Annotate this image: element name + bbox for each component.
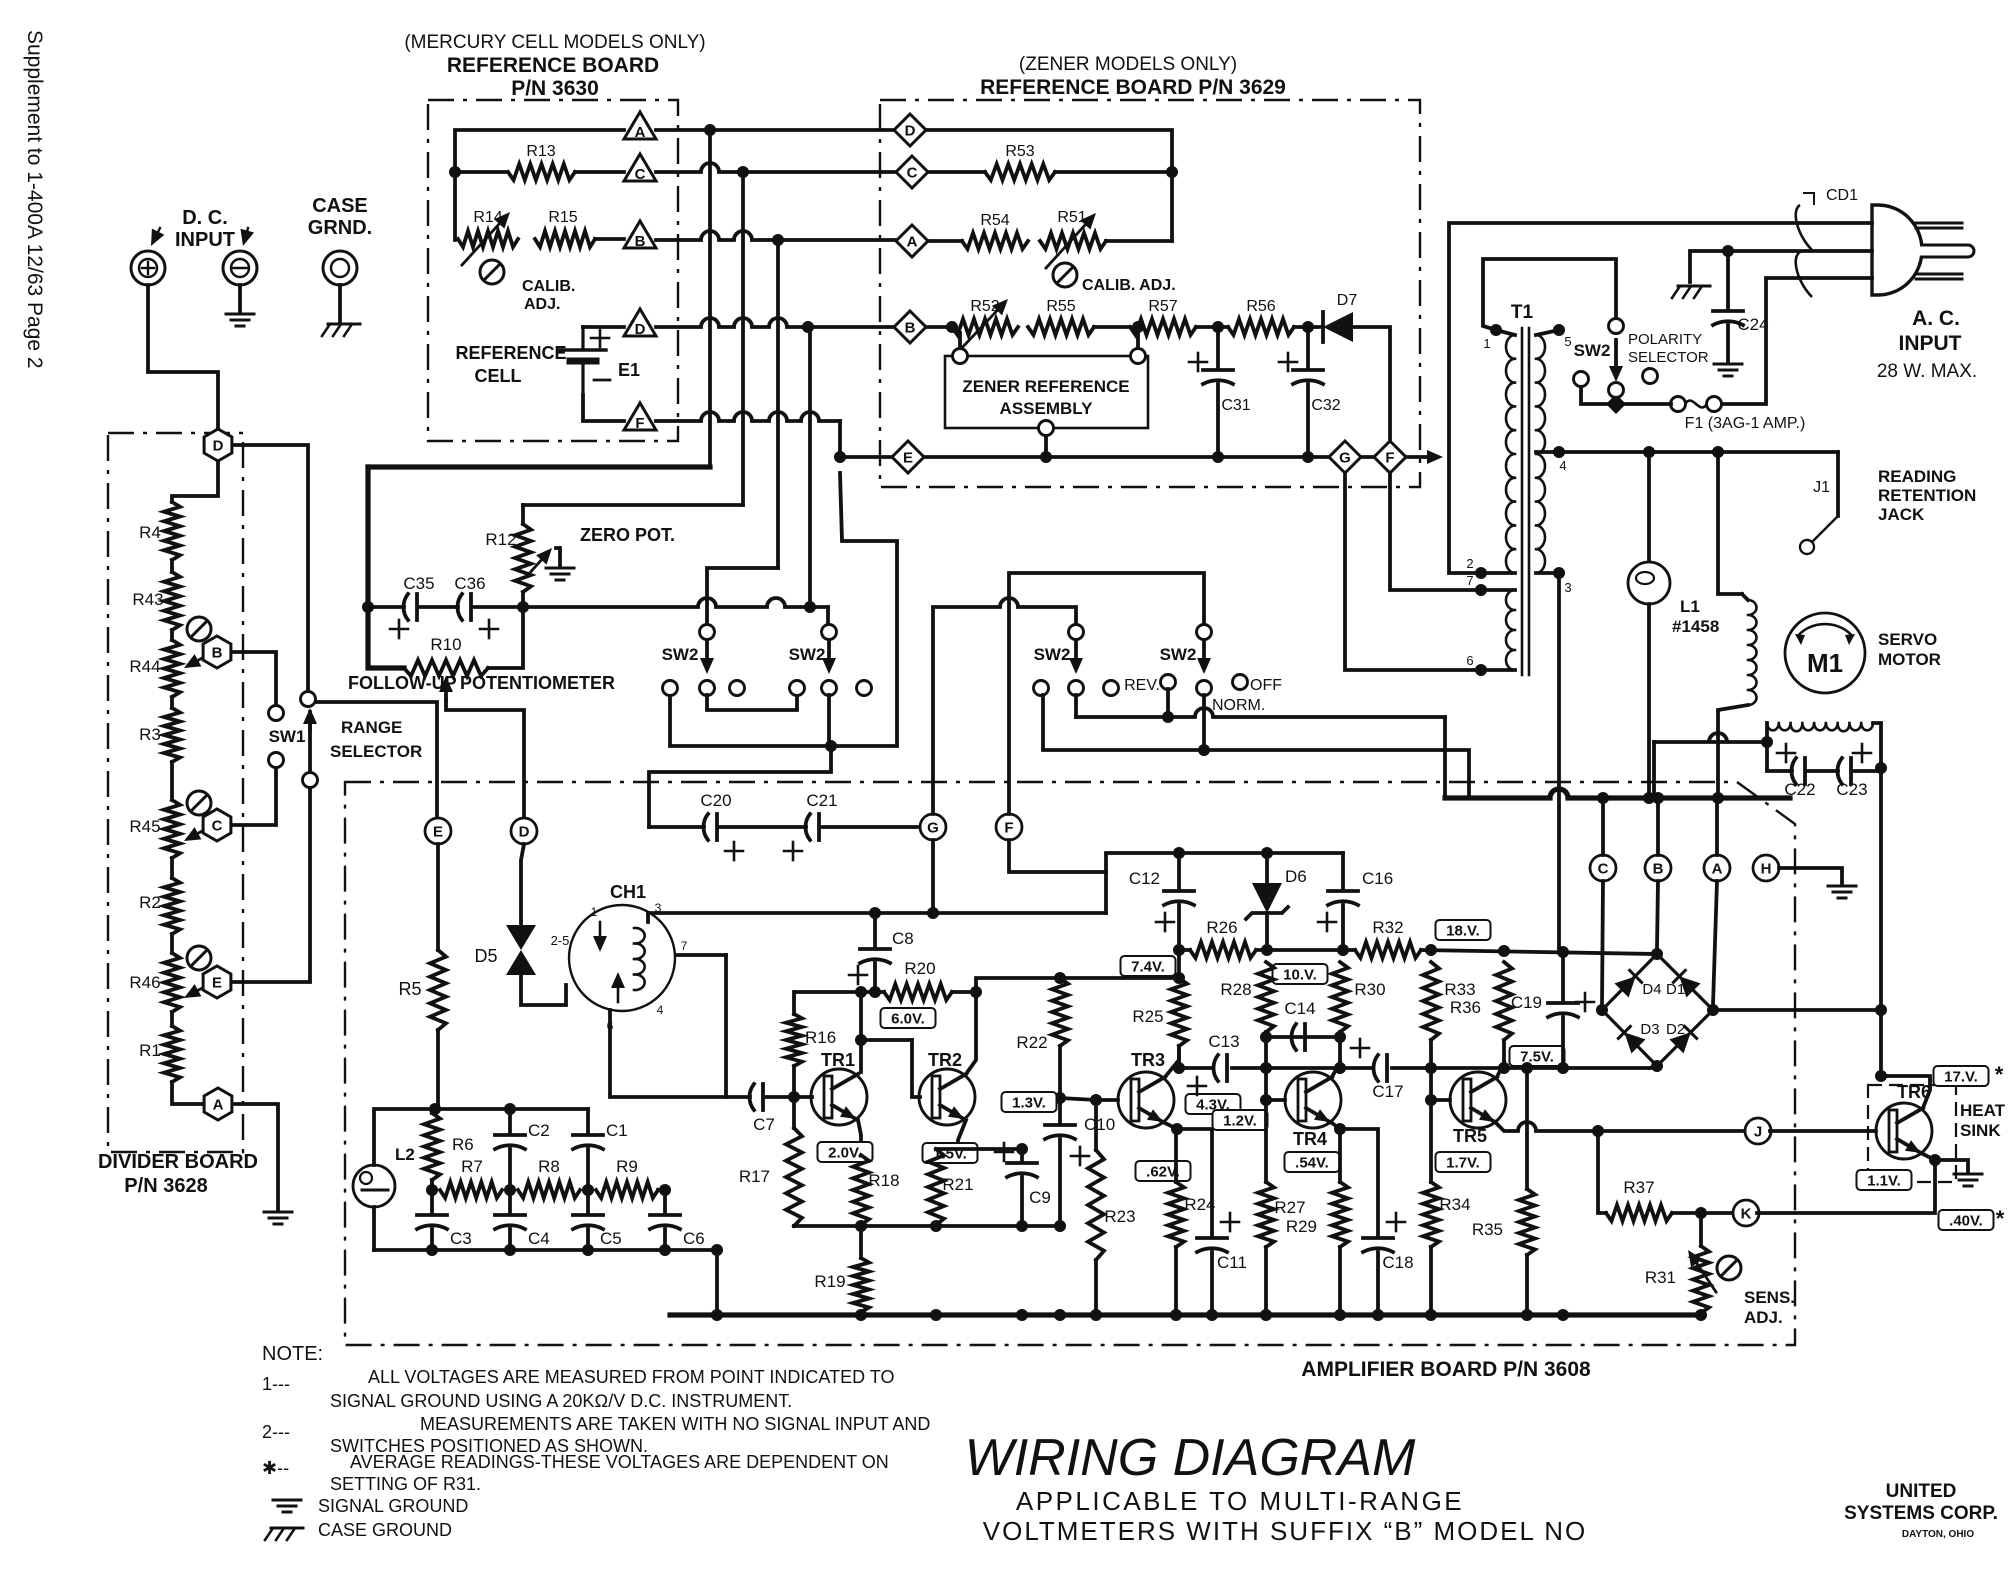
wire pin5 stub bbox=[1536, 330, 1559, 335]
node A (triangle connector) bbox=[624, 112, 656, 141]
junction R16/R17/base bbox=[788, 1091, 800, 1103]
wire R51 to bus bbox=[1106, 239, 1172, 243]
junction R35 top bbox=[1521, 1062, 1533, 1074]
svg-text:CD1: CD1 bbox=[1826, 187, 1858, 204]
svg-text:10.V.: 10.V. bbox=[1283, 967, 1317, 984]
junction C19 bottom bbox=[1557, 1062, 1569, 1074]
svg-text:D5: D5 bbox=[474, 946, 497, 966]
voltage label 1.5V. bbox=[923, 1143, 978, 1163]
R52 wiper arrow bbox=[958, 299, 1008, 352]
junction TR1 collector bbox=[855, 986, 867, 998]
transformer pin 2 bbox=[1475, 567, 1487, 579]
wire to R10 bbox=[368, 607, 404, 668]
svg-text:✱--: ✱-- bbox=[262, 1458, 289, 1478]
junction C31 top bbox=[1212, 321, 1224, 333]
wire R57 to R56 bbox=[1196, 325, 1228, 329]
svg-text:POTENTIOMETER: POTENTIOMETER bbox=[460, 673, 615, 693]
junction D6 top bbox=[1261, 847, 1273, 859]
minus sign for E1 bbox=[594, 379, 610, 382]
junction bridge right bbox=[1707, 1004, 1719, 1016]
R14 wiper arrow bbox=[462, 212, 510, 265]
wire C18 to ground bus bbox=[1376, 1252, 1380, 1315]
SW2 contact bbox=[663, 681, 678, 696]
transistor TR6 bbox=[1876, 1103, 1932, 1159]
svg-text:CALIB.: CALIB. bbox=[522, 278, 575, 295]
case ground terminal bbox=[323, 251, 357, 285]
svg-text:R51: R51 bbox=[1057, 209, 1086, 226]
wire bbox=[1742, 594, 1748, 600]
svg-text:2---: 2--- bbox=[262, 1422, 290, 1442]
svg-text:2-5: 2-5 bbox=[551, 933, 570, 948]
capacitor C24 bbox=[1713, 311, 1743, 325]
junction SW2 output bbox=[825, 740, 837, 752]
wire D5 to chopper CH1 bbox=[521, 975, 566, 1005]
svg-text:MOTOR: MOTOR bbox=[1878, 650, 1941, 669]
resistor R37 bbox=[1606, 1205, 1672, 1221]
wire R36 down to TR5 collector bbox=[1502, 1040, 1506, 1068]
svg-text:7.4V.: 7.4V. bbox=[1131, 959, 1165, 976]
svg-text:REFERENCE: REFERENCE bbox=[455, 343, 566, 363]
wire node G circle down to rail bbox=[931, 840, 935, 913]
DC input positive terminal bbox=[131, 251, 165, 285]
svg-text:R31: R31 bbox=[1645, 1268, 1676, 1287]
svg-text:NORM.: NORM. bbox=[1212, 697, 1265, 714]
junction C3 bottom bbox=[426, 1244, 438, 1256]
SW2 polarity contact bbox=[1574, 372, 1589, 387]
wire AC hot to fuse F1 bbox=[1722, 278, 1872, 404]
calibration screw for R46 bbox=[187, 946, 211, 970]
wire pin4 row bbox=[1559, 450, 1838, 454]
junction B column bbox=[772, 234, 784, 246]
node B (circle connector) bbox=[1645, 855, 1671, 881]
svg-text:TR1: TR1 bbox=[821, 1050, 855, 1070]
svg-text:C4: C4 bbox=[528, 1229, 550, 1248]
svg-text:R20: R20 bbox=[904, 959, 935, 978]
wire F column to zener E row bbox=[840, 421, 892, 457]
svg-text:SW2: SW2 bbox=[662, 645, 699, 664]
junction column D / C35 line bbox=[804, 601, 816, 613]
interstage line bbox=[1179, 1066, 1212, 1070]
transformer pin 3 bbox=[1553, 567, 1565, 579]
svg-text:7: 7 bbox=[1466, 573, 1473, 588]
wire R43 to R44 bbox=[170, 630, 174, 640]
node C (diamond connector) bbox=[896, 156, 928, 188]
svg-text:C36: C36 bbox=[454, 574, 485, 593]
wire node C to SW1 contact bbox=[233, 765, 276, 825]
wire to TR5 base bbox=[1431, 1098, 1450, 1102]
svg-text:R54: R54 bbox=[980, 212, 1009, 229]
junction SW2 polarity (diamond) bbox=[1606, 394, 1626, 414]
capacitor C16 bbox=[1328, 891, 1358, 905]
node E (circle connector) bbox=[425, 818, 451, 844]
wire node B to SW1 contact bbox=[233, 652, 276, 705]
svg-text:D: D bbox=[213, 438, 224, 455]
wire fuse to SW2 polarity junction bbox=[1616, 402, 1671, 406]
950 rail segment bbox=[1256, 948, 1355, 952]
svg-text:C13: C13 bbox=[1208, 1032, 1239, 1051]
zener board E line bbox=[924, 455, 1329, 459]
wire 1.3V node to C10 bbox=[1058, 1098, 1062, 1122]
node F (diamond connector) bbox=[1374, 441, 1406, 473]
amplifier board boundary P/N 3608 bbox=[345, 782, 1795, 1345]
svg-text:G: G bbox=[1339, 450, 1351, 467]
bridge rectifier bbox=[1602, 954, 1713, 1066]
interstage line bbox=[1392, 1066, 1650, 1070]
svg-text:(MERCURY CELL MODELS ONLY): (MERCURY CELL MODELS ONLY) bbox=[404, 32, 705, 53]
wire C6 to bottom bus bbox=[663, 1229, 667, 1250]
junction emitter bbox=[1929, 1154, 1941, 1166]
junction C8 bottom bbox=[869, 986, 881, 998]
junction C23/right column bbox=[1875, 762, 1887, 774]
svg-text:FOLLOW-UP: FOLLOW-UP bbox=[348, 673, 457, 693]
SW2 polarity contact bbox=[1643, 369, 1658, 384]
svg-text:R22: R22 bbox=[1016, 1033, 1047, 1052]
junction C19 top bbox=[1557, 946, 1569, 958]
resistor R25 bbox=[1171, 978, 1187, 1046]
wire to R13 bbox=[455, 170, 505, 174]
svg-text:C32: C32 bbox=[1311, 397, 1340, 414]
svg-text:18.V.: 18.V. bbox=[1446, 923, 1480, 940]
junction TR5 collector bbox=[1498, 1062, 1510, 1074]
svg-text:R52: R52 bbox=[970, 298, 999, 315]
wire TR1 emitter bbox=[858, 1120, 861, 1149]
junction TR2 emitter bbox=[952, 1143, 964, 1155]
svg-text:JACK: JACK bbox=[1878, 505, 1925, 524]
potentiometer R12 bbox=[515, 524, 531, 592]
wire node F column to SW2 block bbox=[670, 473, 897, 746]
capacitor C18 bbox=[1363, 1238, 1393, 1252]
svg-text:B: B bbox=[635, 233, 646, 250]
wire filter to ground bus bbox=[715, 1250, 719, 1315]
junction R20/TR2 collector bbox=[970, 986, 982, 998]
svg-text:CH1: CH1 bbox=[610, 882, 646, 902]
junction F/E column bbox=[834, 451, 846, 463]
node G (diamond connector) bbox=[1329, 441, 1361, 473]
node D (circle connector) bbox=[511, 818, 537, 844]
SW2 contact bbox=[1104, 681, 1119, 696]
wire emitter to ground bbox=[1935, 1160, 1968, 1172]
wire node B to zener node A bbox=[656, 231, 896, 240]
capacitor C2 bbox=[495, 1135, 525, 1149]
R12 wiper arrow bbox=[527, 548, 552, 576]
diode D1 bbox=[1672, 969, 1700, 997]
wire L1 to motor bus bbox=[1647, 604, 1651, 798]
SW2 contact bbox=[700, 625, 715, 640]
wire TR3 emitter bbox=[1165, 1123, 1177, 1129]
wire node D triangle to E1 + bbox=[583, 325, 624, 329]
calibration screw for R45 bbox=[187, 791, 211, 815]
svg-text:R2: R2 bbox=[139, 893, 161, 912]
svg-text:B: B bbox=[1653, 861, 1664, 878]
svg-text:D1: D1 bbox=[1666, 981, 1685, 998]
svg-text:6: 6 bbox=[1466, 653, 1473, 668]
capacitor C32 bbox=[1293, 370, 1323, 384]
SW2 contact bbox=[1069, 681, 1084, 696]
svg-text:SERVO: SERVO bbox=[1878, 630, 1937, 649]
wire winding right to column bbox=[1873, 723, 1881, 768]
wire pin1 stub bbox=[1496, 330, 1515, 335]
calibration screw for R44 bbox=[187, 617, 211, 641]
wire R24 to ground bus bbox=[1174, 1247, 1178, 1315]
signal ground at R12 bbox=[546, 568, 574, 580]
wire column B to SW2 contact bbox=[707, 568, 778, 624]
resistor R27 bbox=[1258, 1182, 1274, 1247]
wire bridge right to TR6 column bbox=[1713, 1008, 1881, 1012]
wire SW2 to transformer pin 1 bbox=[1483, 259, 1616, 330]
junction motor column bbox=[1712, 446, 1724, 458]
junction R27 bbox=[1260, 1309, 1272, 1321]
pointer to - terminal bbox=[241, 228, 255, 246]
svg-text:INPUT: INPUT bbox=[1899, 332, 1962, 355]
wire to C20 bbox=[649, 825, 704, 829]
resistor R13 bbox=[508, 164, 575, 180]
svg-text:SELECTOR: SELECTOR bbox=[1628, 349, 1709, 366]
svg-text:C35: C35 bbox=[403, 574, 434, 593]
resistor R57 bbox=[1130, 319, 1196, 335]
svg-text:R9: R9 bbox=[616, 1157, 638, 1176]
svg-text:VOLTMETERS WITH SUFFIX “B” M: VOLTMETERS WITH SUFFIX “B” MODEL NO bbox=[983, 1516, 1587, 1546]
junction C24 bbox=[1722, 245, 1734, 257]
svg-text:HEAT: HEAT bbox=[1960, 1101, 2006, 1120]
capacitor C12 bbox=[1164, 891, 1194, 905]
wire node F circle down to rail bbox=[1009, 840, 1106, 872]
wire CH1 pin 6 to C7 line bbox=[610, 1010, 726, 1097]
junction R19 bbox=[855, 1309, 867, 1321]
wire TR4 emitter to R29 bbox=[1338, 1129, 1342, 1182]
capacitor C22 bbox=[1791, 758, 1805, 784]
node B (triangle connector) bbox=[624, 221, 656, 250]
svg-text:Supplement to 1-400A 12/63 Pag: Supplement to 1-400A 12/63 Page 2 bbox=[23, 30, 46, 369]
svg-text:R1: R1 bbox=[139, 1041, 161, 1060]
SW2 contact OFF bbox=[1233, 675, 1248, 690]
wire to C6 bbox=[663, 1190, 667, 1212]
wire R16 top bbox=[792, 992, 796, 1014]
svg-text:1: 1 bbox=[591, 905, 598, 919]
resistor R54 bbox=[962, 233, 1028, 249]
svg-text:TR4: TR4 bbox=[1293, 1129, 1327, 1149]
wire C19 down bbox=[1561, 1017, 1565, 1068]
wire node F to zener node E bbox=[656, 412, 840, 421]
junction TR3 emitter bbox=[1171, 1123, 1183, 1135]
svg-text:R34: R34 bbox=[1439, 1195, 1470, 1214]
svg-text:D4: D4 bbox=[1642, 981, 1661, 998]
svg-text:DAYTON, OHIO: DAYTON, OHIO bbox=[1902, 1529, 1974, 1540]
wire TR1 collector bbox=[859, 992, 863, 1072]
voltage label .62V. bbox=[1136, 1161, 1191, 1181]
svg-text:C18: C18 bbox=[1382, 1253, 1413, 1272]
wire to J1 jack bbox=[1836, 452, 1840, 516]
junction R5/R6 bbox=[429, 1103, 441, 1115]
wire bbox=[1614, 394, 1618, 396]
svg-text:28 W. MAX.: 28 W. MAX. bbox=[1877, 361, 1977, 382]
svg-text:C12: C12 bbox=[1129, 869, 1160, 888]
wire to motor winding bbox=[1718, 452, 1742, 594]
wire CH1 pin 7 bbox=[676, 953, 726, 957]
svg-text:SIGNAL GROUND USING A 20KΩ/V D: SIGNAL GROUND USING A 20KΩ/V D.C. INSTRU… bbox=[330, 1391, 792, 1411]
potentiometer R46 bbox=[164, 953, 180, 1012]
950 rail to bridge bbox=[1421, 950, 1657, 954]
junction right column bbox=[1875, 1004, 1887, 1016]
wire R56 to D7 bbox=[1294, 325, 1320, 329]
wire bus to node C circle bbox=[1601, 798, 1605, 855]
wire pin2 stub bbox=[1481, 571, 1515, 575]
wire TR4 collector bbox=[1332, 1062, 1340, 1077]
zener reference assembly box bbox=[945, 356, 1148, 428]
voltage label .40V. bbox=[1939, 1210, 1994, 1230]
svg-text:D7: D7 bbox=[1337, 292, 1358, 309]
capacitor C14 bbox=[1291, 1024, 1305, 1050]
junction C10 bottom bbox=[1054, 1220, 1066, 1232]
calibration screw R51 bbox=[1053, 263, 1077, 287]
junction G/rail bbox=[927, 907, 939, 919]
wire pin4 tap bbox=[1536, 450, 1559, 454]
svg-text:1: 1 bbox=[1483, 336, 1490, 351]
wire R4 to R43 bbox=[170, 560, 174, 572]
transistor TR2 bbox=[919, 1069, 975, 1125]
transistor TR4 bbox=[1285, 1072, 1341, 1128]
svg-text:5: 5 bbox=[1564, 334, 1571, 349]
diode D7 bbox=[1323, 312, 1353, 342]
potentiometer R44 bbox=[164, 640, 180, 697]
wire TR4 base to R27 bbox=[1264, 1100, 1268, 1182]
svg-text:3: 3 bbox=[1564, 580, 1571, 595]
potentiometer R45 bbox=[164, 800, 180, 858]
divider board boundary P/N 3628 bbox=[108, 433, 243, 1152]
svg-text:REFERENCE BOARD: REFERENCE BOARD bbox=[447, 54, 659, 77]
svg-text:R7: R7 bbox=[461, 1157, 483, 1176]
wire bbox=[430, 1109, 434, 1113]
motor control winding bbox=[1748, 600, 1757, 705]
wire emitter to C18 bbox=[1340, 1129, 1378, 1235]
svg-text:D: D bbox=[519, 824, 530, 841]
wire R37 to node K bbox=[1672, 1211, 1733, 1215]
signal ground at TR6 bbox=[1954, 1174, 1982, 1186]
fuse F1 bbox=[1671, 397, 1722, 412]
wire R25 to TR3 collector bbox=[1177, 1046, 1181, 1068]
SW2 contact bbox=[1197, 625, 1212, 640]
svg-text:MEASUREMENTS ARE TAKEN WITH NO: MEASUREMENTS ARE TAKEN WITH NO SIGNAL IN… bbox=[420, 1414, 930, 1434]
sens adjust screw bbox=[1717, 1256, 1741, 1280]
wire C22 to C23 bbox=[1808, 769, 1838, 773]
wire to C24 bbox=[1726, 251, 1730, 308]
svg-text:7: 7 bbox=[681, 939, 688, 953]
wire C22 row to bus bbox=[1654, 733, 1767, 742]
wire winding to motor bus bbox=[1718, 705, 1748, 798]
svg-text:R4: R4 bbox=[139, 523, 161, 542]
wire R44 to R3 bbox=[170, 697, 174, 708]
SW2 polarity contact bbox=[1609, 383, 1624, 398]
svg-text:R23: R23 bbox=[1104, 1207, 1135, 1226]
svg-text:SW2: SW2 bbox=[789, 645, 826, 664]
svg-text:4: 4 bbox=[657, 1003, 664, 1017]
svg-text:POLARITY: POLARITY bbox=[1628, 331, 1702, 348]
svg-text:ADJ.: ADJ. bbox=[1744, 1308, 1783, 1327]
svg-text:1.7V.: 1.7V. bbox=[1446, 1155, 1480, 1172]
svg-text:D2: D2 bbox=[1666, 1021, 1685, 1038]
wire follow-up block left side bbox=[365, 467, 370, 607]
case ground legend symbol bbox=[265, 1528, 303, 1540]
capacitor C19 bbox=[1548, 1003, 1578, 1017]
capacitor C10 bbox=[1045, 1125, 1075, 1139]
junction R35 bbox=[1521, 1309, 1533, 1321]
wire C35 to C36 bbox=[420, 605, 458, 609]
wire TR5 emitter to node J bbox=[1495, 1122, 1745, 1131]
capacitor C8 bbox=[860, 949, 890, 963]
svg-text:R32: R32 bbox=[1372, 918, 1403, 937]
svg-text:1---: 1--- bbox=[262, 1374, 290, 1394]
junction winding/bus bbox=[1712, 792, 1724, 804]
svg-text:T1: T1 bbox=[1511, 302, 1534, 323]
svg-text:C21: C21 bbox=[806, 791, 837, 810]
wire C9 down bbox=[1020, 1177, 1024, 1226]
resistor R19 bbox=[853, 1258, 869, 1312]
wire C10 down bbox=[1058, 1139, 1062, 1226]
wire node B to bridge bbox=[1657, 881, 1658, 949]
junction C5 bottom bbox=[582, 1244, 594, 1256]
svg-text:C: C bbox=[907, 165, 918, 182]
voltage label 7.4V. bbox=[1121, 956, 1176, 976]
resistor R5 bbox=[430, 950, 446, 1030]
svg-text:R36: R36 bbox=[1450, 998, 1481, 1017]
R46 wiper arrow bbox=[184, 982, 213, 998]
junction R36 top bbox=[1498, 945, 1510, 957]
wire C24 to ground bbox=[1726, 325, 1730, 362]
wire SW2 output to C20 bbox=[649, 746, 831, 827]
svg-text:D: D bbox=[905, 123, 916, 140]
resistor R36 bbox=[1496, 962, 1512, 1040]
wire down to SW2 pole 2 contact bbox=[826, 607, 830, 624]
amplifier ground bus bbox=[670, 1312, 1701, 1317]
svg-text:H: H bbox=[1761, 861, 1772, 878]
junction C11 bbox=[1206, 1309, 1218, 1321]
transformer pin 6 bbox=[1475, 664, 1487, 676]
junction R34 bbox=[1425, 1309, 1437, 1321]
SW2 arm arrow bbox=[700, 641, 714, 674]
wire R53 to bus bbox=[1055, 170, 1172, 174]
junction bbox=[855, 1034, 867, 1046]
junction bbox=[1557, 1309, 1569, 1321]
svg-text:SENS.: SENS. bbox=[1744, 1288, 1795, 1307]
wire to lamp L1 bbox=[1647, 452, 1651, 562]
wire emitter to C11 bbox=[1177, 1129, 1212, 1235]
svg-text:C20: C20 bbox=[700, 791, 731, 810]
svg-text:E: E bbox=[212, 975, 222, 992]
wire to R31 bbox=[1699, 1213, 1703, 1246]
resistor R28 bbox=[1258, 962, 1274, 1032]
wire R34 to ground bus bbox=[1429, 1247, 1433, 1315]
wire C2 to node bbox=[508, 1149, 512, 1190]
svg-text:C3: C3 bbox=[450, 1229, 472, 1248]
svg-text:C11: C11 bbox=[1217, 1253, 1247, 1272]
junction L1/bus bbox=[1643, 792, 1655, 804]
wire R46 to R1 bbox=[170, 1012, 174, 1026]
svg-text:R27: R27 bbox=[1274, 1198, 1305, 1217]
wire C3 to bottom bus bbox=[430, 1229, 434, 1250]
wire bus to node A triangle bbox=[455, 130, 624, 240]
voltage label 1.7V. bbox=[1436, 1152, 1491, 1172]
wire C7 to TR1 base bbox=[766, 1095, 812, 1099]
wire winding to C22 bbox=[1765, 723, 1769, 742]
junction REV/NORM bus bbox=[1162, 711, 1174, 723]
wire C20 to C21 bbox=[720, 825, 806, 829]
resistor R26 bbox=[1190, 942, 1256, 958]
svg-text:F: F bbox=[1004, 820, 1013, 837]
wire C16 down bbox=[1341, 905, 1345, 950]
wire C36 to junction bbox=[474, 605, 523, 609]
wire to TR2 base bbox=[912, 1040, 920, 1097]
wire R23 to ground bus bbox=[1094, 1260, 1098, 1315]
svg-text:1.1V.: 1.1V. bbox=[1867, 1173, 1901, 1190]
